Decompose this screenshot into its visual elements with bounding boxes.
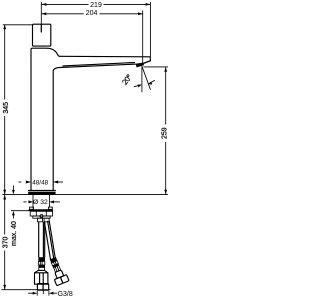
extension line aerator level (144, 66, 169, 68)
dimension max 40 (11, 186, 18, 246)
straight hose tube (39, 222, 45, 258)
washer tab left (30, 207, 34, 209)
extension line x=150.4 to spout tip (149, 2, 151, 57)
spout tip cut (20 deg face) (144, 61, 151, 64)
angled hose fitting (47, 256, 69, 286)
grub screw circle (40, 215, 43, 218)
shank right edge (48, 195, 50, 207)
svg-text:219: 219 (90, 2, 102, 9)
straight hose crimp (38, 257, 45, 270)
angled hose tube (44, 221, 55, 260)
svg-text:204: 204 (86, 10, 98, 17)
dimension 204 line (42, 10, 143, 17)
mounting surface line (3, 194, 169, 196)
extension line x=142.7 to aerator (142, 11, 144, 65)
bottom reference line (2, 289, 51, 291)
handle (33, 24, 51, 46)
spout inner line (63, 63, 136, 66)
handle lever mark (40, 24, 42, 32)
20 degree reference vertical line (141, 66, 143, 92)
counter underside line (11, 210, 29, 212)
hose stub right (44, 218, 49, 222)
lower bar (33, 216, 50, 218)
mounting nut (30, 211, 52, 216)
washer tab right (48, 207, 52, 209)
faucet body and spout outline (31, 48, 150, 190)
dimension 370 (3, 195, 10, 290)
svg-text:G3/8: G3/8 (58, 291, 73, 298)
dimension 259 (161, 67, 168, 194)
dimension diameter 32 (23, 199, 60, 206)
svg-text:345: 345 (3, 102, 10, 114)
dimension G3/8 (28, 291, 73, 298)
washer plate (29, 209, 54, 211)
straight hose thread tip (37, 284, 48, 295)
extension line handle top (3, 24, 33, 26)
svg-text:259: 259 (161, 127, 168, 139)
base flange (28, 190, 56, 192)
20 degree right arrow (148, 80, 155, 84)
svg-text:370: 370 (3, 236, 10, 248)
dimension 345 (3, 25, 10, 195)
svg-text:48/48: 48/48 (32, 179, 48, 186)
straight hose nut (35, 270, 48, 284)
svg-text:Ø 32: Ø 32 (33, 199, 48, 206)
dimension 48/48 (18, 179, 63, 186)
svg-text:max. 40: max. 40 (11, 221, 18, 246)
20 degree text (122, 74, 132, 84)
aerator nub (136, 63, 144, 68)
20 degree left arrow (134, 85, 142, 88)
shank left edge (32, 195, 34, 209)
hose stub left (38, 218, 43, 222)
20 degree slanted line (142, 66, 151, 90)
extension line center axis (top) (40, 2, 42, 32)
dimension 219 line (42, 2, 151, 9)
